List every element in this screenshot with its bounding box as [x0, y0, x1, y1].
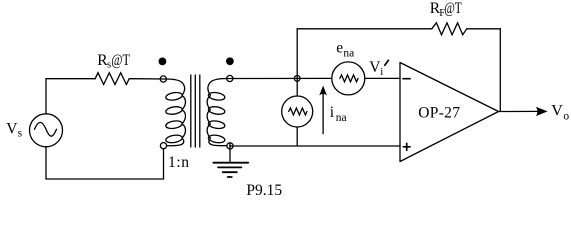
- wire: left vertical from rail down to Vs source top: [45, 79, 47, 114]
- noise current source i_na zigzag symbol: [289, 108, 307, 115]
- wire: secondary top rail to e_na: [227, 77, 332, 79]
- svg-text:P9.15: P9.15: [246, 182, 282, 198]
- op-amp U1 non-inverting input plus sign: [403, 143, 410, 150]
- svg-text:V: V: [551, 103, 563, 120]
- wire: feedback top rail left of RF: [297, 28, 432, 30]
- ground symbol bars: [213, 163, 248, 177]
- svg-text:o: o: [563, 110, 569, 122]
- transformer T1 primary top terminal: [160, 76, 166, 82]
- wire: Rs to primary top terminal: [132, 78, 167, 80]
- svg-text:na: na: [336, 112, 347, 124]
- svg-text:@T: @T: [444, 0, 462, 17]
- node junction at Vi' input rail: [294, 76, 300, 82]
- transformer T1 primary bottom terminal: [160, 143, 166, 149]
- wire: feedback vertical from junction up: [296, 29, 298, 79]
- wire: top-left rail from Vs to Rs: [46, 78, 95, 80]
- wire: bottom rail secondary to op-amp non-inverting input: [230, 145, 400, 147]
- op-amp U1 inverting input minus sign: [403, 78, 410, 80]
- Vo output arrowhead: [536, 107, 548, 116]
- label Vi prime mark: [385, 60, 389, 65]
- wire: junction down to i_na source: [296, 78, 298, 96]
- svg-text:V: V: [6, 121, 18, 138]
- wire: feedback right vertical down to output: [499, 29, 501, 112]
- resistor RF (RF@T) zigzag: [432, 23, 467, 35]
- svg-text:s: s: [18, 127, 23, 139]
- transformer T1 secondary polarity dot: [226, 57, 234, 65]
- noise voltage source e_na zigzag symbol: [340, 75, 358, 82]
- wire: bottom-left rail: [46, 178, 164, 180]
- transformer T1 core lines: [191, 75, 200, 147]
- voltage source VS sine symbol: [35, 122, 57, 136]
- svg-text:i: i: [380, 66, 383, 78]
- op-amp U1 OP-27 triangle: [400, 63, 499, 162]
- i_na annotation arrowhead: [319, 86, 327, 96]
- svg-text:@T: @T: [111, 52, 130, 69]
- wire: primary bottom vertical: [163, 149, 165, 179]
- svg-text:OP-27: OP-27: [418, 104, 460, 121]
- transformer T1 primary winding (1:n): [165, 79, 185, 146]
- i_na annotation arrow line: [322, 93, 324, 134]
- voltage source VS circle: [30, 114, 63, 147]
- transformer T1 primary polarity dot: [159, 58, 167, 66]
- wire: Vs bottom to bottom-left rail: [45, 147, 47, 179]
- ground symbol stem: [229, 143, 231, 163]
- transformer T1 secondary top terminal: [227, 75, 233, 81]
- svg-text:na: na: [343, 47, 354, 59]
- wire: i_na source bottom to bottom rail: [296, 127, 298, 146]
- transformer T1 secondary bottom terminal: [227, 143, 233, 149]
- resistor RS (Rs@T) zigzag: [95, 73, 131, 85]
- noise current source i_na circle: [282, 96, 313, 127]
- svg-text:1:n: 1:n: [168, 154, 190, 171]
- svg-text:i: i: [330, 104, 335, 121]
- wire: RF to right corner: [467, 28, 501, 30]
- noise voltage source e_na circle: [332, 62, 365, 95]
- svg-text:e: e: [336, 40, 343, 57]
- wire: op-amp U1 output to Vo: [499, 110, 540, 112]
- transformer T1 secondary winding: [207, 79, 227, 146]
- wire: e_na to op-amp inverting input: [365, 77, 400, 79]
